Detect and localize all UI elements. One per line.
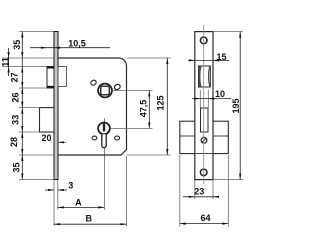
svg-text:64: 64 (200, 213, 210, 223)
svg-text:28: 28 (9, 137, 19, 147)
svg-text:27: 27 (10, 72, 20, 82)
svg-text:26: 26 (11, 92, 21, 102)
svg-text:35: 35 (12, 162, 22, 172)
svg-text:47,5: 47,5 (139, 100, 149, 118)
svg-text:11: 11 (0, 57, 10, 67)
svg-text:A: A (75, 198, 82, 208)
svg-text:10,5: 10,5 (68, 39, 86, 49)
svg-text:10: 10 (215, 89, 225, 99)
svg-text:15: 15 (216, 52, 226, 62)
svg-text:35: 35 (12, 40, 22, 50)
svg-text:B: B (85, 214, 92, 224)
svg-text:33: 33 (11, 115, 21, 125)
svg-text:23: 23 (194, 187, 204, 197)
svg-text:20: 20 (41, 133, 51, 143)
svg-text:125: 125 (155, 95, 165, 110)
svg-text:3: 3 (68, 181, 73, 191)
svg-text:195: 195 (231, 98, 241, 113)
